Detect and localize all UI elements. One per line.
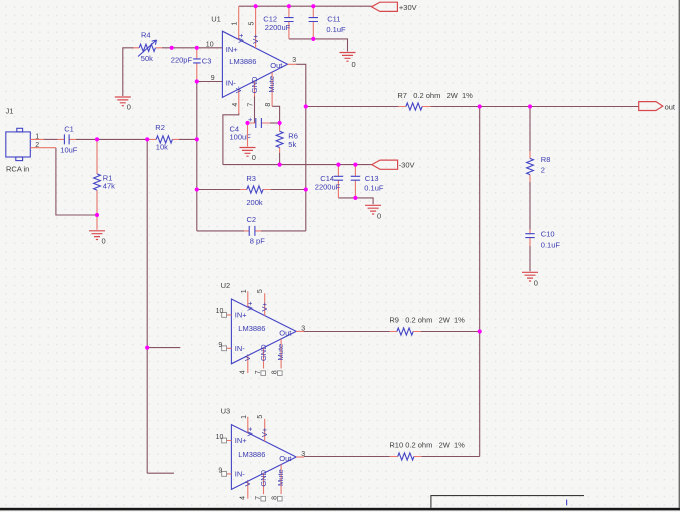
- svg-text:C13: C13: [365, 174, 379, 183]
- wire: U1 output down to R7 takeoff / R3 / C2: [296, 64, 306, 231]
- svg-text:10: 10: [216, 308, 224, 315]
- capacitor C4 100uF: [230, 115, 271, 142]
- svg-text:9: 9: [211, 75, 215, 82]
- svg-text:0: 0: [252, 153, 256, 162]
- svg-text:4: 4: [232, 103, 239, 107]
- capacitor C10 0.1uF: [525, 230, 560, 250]
- svg-text:9: 9: [218, 468, 222, 475]
- node: zobel top: [528, 104, 532, 108]
- svg-text:8: 8: [271, 496, 278, 500]
- svg-text:1: 1: [35, 133, 39, 140]
- wire: U1 pin4 V- to -30V rail: [223, 113, 239, 165]
- svg-text:GND: GND: [259, 469, 268, 486]
- svg-text:IN-: IN-: [235, 344, 246, 353]
- svg-text:R10 0.2 ohm 2W 1%: R10 0.2 ohm 2W 1%: [389, 441, 465, 450]
- svg-text:3: 3: [301, 325, 305, 332]
- wire: zobel branch vertical to R8: [529, 107, 531, 152]
- svg-text:out: out: [665, 102, 676, 111]
- node: C4 left / ground drop: [245, 121, 249, 125]
- wire: +30V top rail: [239, 5, 372, 7]
- svg-text:0.1uF: 0.1uF: [364, 183, 384, 192]
- svg-text:0: 0: [352, 60, 356, 69]
- svg-text:220pF: 220pF: [171, 56, 193, 65]
- svg-text:IN-: IN-: [226, 78, 237, 87]
- svg-text:LM3886: LM3886: [229, 57, 256, 66]
- svg-text:IN+: IN+: [235, 311, 248, 320]
- wire: C2 row right: [261, 230, 306, 232]
- svg-text:1: 1: [232, 21, 239, 25]
- svg-text:Out: Out: [279, 454, 292, 463]
- resistor R6 5k: [276, 126, 298, 153]
- svg-text:3: 3: [301, 451, 305, 458]
- svg-text:7: 7: [248, 103, 255, 107]
- svg-text:V+: V+: [237, 33, 246, 43]
- svg-text:8 pF: 8 pF: [250, 237, 265, 246]
- svg-text:U2: U2: [221, 281, 231, 290]
- wire: -30V rail: [223, 164, 372, 166]
- svg-text:2200uF: 2200uF: [315, 182, 341, 191]
- node: C14 top on -30V rail: [336, 163, 340, 167]
- svg-text:IN+: IN+: [226, 45, 239, 54]
- capacitor C14 2200uF: [315, 165, 343, 198]
- node: R3 right: [304, 187, 308, 191]
- connector J1 RCA in: [6, 107, 56, 174]
- svg-text:RCA in: RCA in: [6, 165, 29, 174]
- svg-text:R4: R4: [141, 31, 151, 40]
- svg-text:9: 9: [218, 342, 222, 349]
- ground (0) below C12/C11 rail: [340, 53, 356, 70]
- resistor R2 10k: [149, 123, 179, 152]
- resistor R8 2: [527, 151, 551, 182]
- svg-text:Mute: Mute: [267, 76, 276, 93]
- wire stub: R1 bottom to ground: [96, 215, 98, 230]
- svg-text:R9 0.2 ohm 2W 1%: R9 0.2 ohm 2W 1%: [389, 315, 465, 324]
- svg-text:10: 10: [216, 434, 224, 441]
- svg-text:0: 0: [127, 103, 131, 112]
- wire: feedback/input distribution vertical: [146, 139, 148, 473]
- node: U2 branch tap: [145, 346, 149, 350]
- wire: U2 out row right of R9: [421, 331, 480, 333]
- resistor R10 0.2 ohm: [389, 441, 465, 461]
- svg-text:1: 1: [241, 289, 248, 293]
- svg-text:10: 10: [206, 41, 214, 48]
- svg-text:R3: R3: [246, 174, 256, 183]
- svg-text:Mute: Mute: [276, 344, 285, 361]
- node: C11 on +30V rail: [311, 4, 315, 8]
- node: C12 on +30V rail: [287, 4, 291, 8]
- svg-text:V-: V-: [243, 479, 252, 487]
- node: R6 bottom on -30V rail: [278, 163, 282, 167]
- wire: input row J1 pin1 to C1: [43, 138, 58, 140]
- wire: stub to U2 IN- row: [147, 347, 180, 349]
- svg-text:Mute: Mute: [276, 469, 285, 486]
- wire: R4 left to ground: [123, 48, 134, 96]
- svg-text:3: 3: [292, 57, 296, 64]
- svg-text:GND: GND: [259, 344, 268, 361]
- page right border: [679, 0, 680, 508]
- svg-text:V+: V+: [246, 426, 255, 436]
- wire: stub to U3 IN- row: [147, 472, 174, 474]
- op-amp U2 LM3886: [216, 281, 306, 375]
- svg-text:U3: U3: [221, 407, 231, 416]
- wire: input row C1 to R2: [76, 138, 149, 140]
- ground (0) below C10: [522, 272, 538, 287]
- svg-text:7: 7: [255, 496, 262, 500]
- resistor R7 0.2 ohm: [397, 91, 473, 110]
- op-amp U1 LM3886: [206, 6, 297, 113]
- power flag +30V: [372, 2, 417, 12]
- node: input distribution tap: [145, 137, 149, 141]
- svg-text:50k: 50k: [141, 54, 153, 63]
- svg-text:-30V: -30V: [399, 161, 415, 170]
- svg-text:LM3886: LM3886: [238, 450, 265, 459]
- wire: pin10 row (R4 to U1 IN+): [162, 47, 222, 49]
- svg-text:2200uF: 2200uF: [265, 23, 291, 32]
- wire: R3 row left: [197, 189, 240, 191]
- svg-text:200k: 200k: [246, 198, 263, 207]
- svg-text:0: 0: [102, 237, 106, 246]
- node: R3 left: [195, 187, 199, 191]
- svg-text:5k: 5k: [288, 140, 296, 149]
- svg-text:IN-: IN-: [235, 470, 246, 479]
- node: R2 right / inverting vertical: [195, 137, 199, 141]
- page bottom border: [0, 508, 680, 511]
- wire: R8 to C10: [529, 182, 531, 230]
- svg-text:Out: Out: [279, 329, 292, 338]
- wire: output row R7 left: [306, 106, 399, 108]
- ground (0) below R4 wire: [115, 97, 131, 112]
- svg-text:C11: C11: [327, 15, 340, 24]
- node: C13 top on -30V rail: [353, 163, 357, 167]
- capacitor C2 8pF: [244, 215, 265, 246]
- resistor R3 200k: [240, 174, 271, 207]
- capacitor C11 0.1uF: [309, 6, 346, 39]
- title block frame: [431, 496, 584, 508]
- wire stub: C4 ground drop: [247, 123, 249, 147]
- wire: R6 bottom to -30V rail: [279, 153, 281, 165]
- wire: U1 pin7 GND down to C4: [248, 96, 256, 123]
- svg-text:C10: C10: [541, 230, 555, 239]
- svg-text:8: 8: [265, 103, 272, 107]
- svg-text:8: 8: [271, 370, 278, 374]
- node: R9 right on return vertical: [478, 329, 482, 333]
- svg-text:V-: V-: [234, 86, 243, 94]
- wire: U3 out row left of R10: [304, 456, 390, 458]
- capacitor C3 220pF: [171, 48, 212, 82]
- svg-text:0.1uF: 0.1uF: [326, 25, 346, 34]
- svg-text:R8: R8: [541, 155, 551, 164]
- svg-text:1: 1: [241, 415, 248, 419]
- svg-text:47k: 47k: [103, 182, 115, 191]
- node: C4 right / mute divider: [278, 121, 282, 125]
- wire: C12/C11 bottom rail to ground drop: [289, 39, 348, 52]
- svg-text:4: 4: [240, 496, 247, 500]
- svg-text:7: 7: [255, 370, 262, 374]
- ground (0) below C14/C13 rail: [365, 205, 381, 220]
- node: C1/R1 junction: [95, 137, 99, 141]
- svg-text:R2: R2: [155, 123, 165, 132]
- svg-text:V+: V+: [260, 301, 269, 311]
- svg-text:2: 2: [35, 142, 39, 149]
- svg-text:4: 4: [240, 370, 247, 374]
- wire: J1 pin2 return to R1 bottom: [56, 148, 97, 215]
- ground (0) below C4: [240, 148, 256, 163]
- svg-text:C3: C3: [202, 56, 212, 65]
- wire: pin9 row (C3 bottom junction to U1 IN-): [197, 81, 223, 83]
- node: C3 bottom on pin9 row: [195, 79, 199, 83]
- capacitor C12 2200uF: [263, 6, 293, 39]
- node: C11 bottom on ground rail: [311, 37, 315, 41]
- svg-text:10uF: 10uF: [60, 146, 78, 155]
- svg-text:R7 0.2 ohm 2W 1%: R7 0.2 ohm 2W 1%: [397, 91, 473, 100]
- svg-text:Out: Out: [270, 61, 283, 70]
- svg-text:5: 5: [257, 289, 264, 293]
- svg-text:V+: V+: [246, 301, 255, 311]
- wire: R3 row right: [271, 189, 306, 191]
- node: U1 out / R7 takeoff: [304, 104, 308, 108]
- wire: output row R7 right to out flag: [430, 106, 638, 108]
- node: pin10 row joint: [170, 46, 174, 50]
- svg-text:LM3886: LM3886: [238, 324, 265, 333]
- svg-text:0: 0: [377, 212, 381, 221]
- node: speaker return top: [478, 104, 482, 108]
- node: C13 bottom rail: [353, 196, 357, 200]
- op-amp U3 LM3886: [216, 407, 306, 501]
- wire: U1 pin8 mute jog to R6: [272, 106, 280, 126]
- svg-text:V+: V+: [251, 34, 260, 44]
- svg-text:0.1uF: 0.1uF: [541, 240, 561, 249]
- wire: C4 right plate to mute divider node: [270, 122, 280, 124]
- wire: C14/C13 bottom rail to ground drop: [338, 198, 373, 204]
- capacitor C1 10uF: [58, 124, 78, 154]
- node: R1 bottom: [95, 213, 99, 217]
- out flag: [639, 102, 676, 112]
- svg-text:U1: U1: [211, 14, 221, 23]
- potentiometer R4 50k: [134, 31, 163, 63]
- title block cursor tick: [566, 500, 568, 506]
- wire: speaker return vertical (R7 node to R10): [479, 107, 481, 457]
- svg-text:10k: 10k: [156, 143, 168, 152]
- power flag -30V: [372, 160, 415, 170]
- svg-text:IN+: IN+: [235, 436, 248, 445]
- svg-text:5: 5: [248, 21, 255, 25]
- node: pin5 on +30V rail: [254, 4, 258, 8]
- ground (0) below R1: [89, 231, 106, 246]
- wire: C2 row left: [197, 230, 244, 232]
- svg-text:0: 0: [534, 278, 538, 287]
- wire: U3 out row right of R10: [421, 456, 479, 458]
- wire: R2 right to inverting node vertical: [179, 138, 197, 140]
- svg-text:C1: C1: [64, 124, 74, 133]
- resistor R1 47k: [94, 139, 116, 215]
- capacitor C13 0.1uF: [351, 165, 384, 198]
- svg-text:V+: V+: [260, 427, 269, 437]
- svg-text:2: 2: [541, 166, 545, 175]
- wire: C10 to ground: [529, 246, 531, 271]
- svg-text:J1: J1: [6, 107, 14, 116]
- wire: U2 out row left of R9: [304, 331, 390, 333]
- svg-text:C2: C2: [247, 215, 257, 224]
- node: C3 top on pin10 row: [195, 46, 199, 50]
- wire: inverting node vertical (IN- / R2 / R3 / C2): [196, 82, 198, 231]
- svg-text:5: 5: [257, 415, 264, 419]
- svg-text:GND: GND: [250, 76, 259, 93]
- svg-text:V-: V-: [243, 353, 252, 361]
- resistor R9 0.2 ohm: [389, 315, 465, 335]
- svg-text:+30V: +30V: [399, 3, 417, 12]
